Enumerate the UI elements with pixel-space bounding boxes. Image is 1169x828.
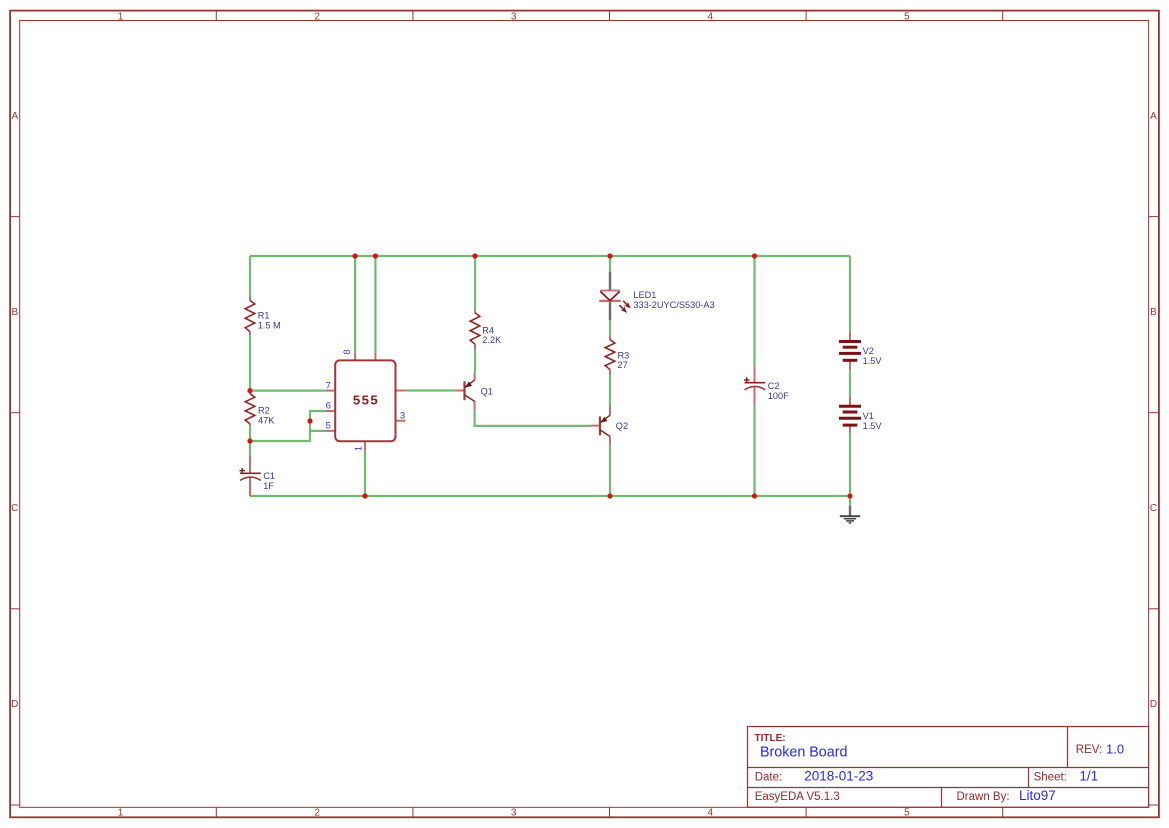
svg-text:C2: C2: [768, 381, 780, 391]
svg-text:2: 2: [314, 808, 320, 819]
svg-text:R2: R2: [258, 405, 270, 415]
svg-text:V2: V2: [863, 346, 874, 356]
svg-text:5: 5: [326, 421, 331, 432]
svg-text:B: B: [11, 307, 18, 318]
svg-text:47K: 47K: [258, 415, 275, 425]
svg-text:Q2: Q2: [616, 421, 628, 431]
svg-text:A: A: [1150, 111, 1157, 122]
svg-text:C: C: [1150, 503, 1157, 514]
svg-text:Drawn By:: Drawn By:: [957, 791, 1010, 803]
svg-text:1: 1: [118, 11, 124, 22]
svg-text:B: B: [1150, 307, 1157, 318]
svg-text:Lito97: Lito97: [1019, 788, 1056, 803]
svg-text:1: 1: [353, 446, 364, 451]
svg-text:4: 4: [708, 11, 714, 22]
svg-text:LED1: LED1: [633, 290, 656, 300]
svg-text:1.0: 1.0: [1106, 742, 1124, 757]
svg-text:EasyEDA V5.1.3: EasyEDA V5.1.3: [755, 791, 840, 803]
svg-text:C: C: [11, 503, 18, 514]
svg-text:REV:: REV:: [1076, 744, 1102, 756]
svg-text:27: 27: [618, 360, 628, 370]
svg-text:100F: 100F: [768, 391, 789, 401]
svg-text:5: 5: [904, 808, 910, 819]
svg-text:5: 5: [904, 11, 910, 22]
svg-text:2.2K: 2.2K: [482, 335, 502, 345]
svg-text:Date:: Date:: [755, 772, 782, 784]
svg-text:Q1: Q1: [481, 386, 493, 396]
svg-text:1.5V: 1.5V: [863, 421, 883, 431]
svg-text:A: A: [11, 111, 18, 122]
svg-text:R1: R1: [258, 311, 270, 321]
svg-text:2018-01-23: 2018-01-23: [804, 769, 873, 784]
svg-text:V1: V1: [863, 411, 874, 421]
svg-text:D: D: [1150, 699, 1157, 710]
svg-text:Broken Board: Broken Board: [760, 745, 847, 761]
svg-text:D: D: [11, 699, 18, 710]
svg-text:TITLE:: TITLE:: [755, 733, 786, 744]
svg-text:4: 4: [708, 808, 714, 819]
svg-text:3: 3: [511, 11, 517, 22]
svg-text:1.5 M: 1.5 M: [258, 321, 281, 331]
svg-text:C1: C1: [263, 471, 275, 481]
svg-text:333-2UYC/S530-A3: 333-2UYC/S530-A3: [633, 300, 714, 310]
svg-text:3: 3: [511, 808, 517, 819]
svg-text:1/1: 1/1: [1079, 769, 1098, 784]
svg-text:6: 6: [326, 401, 331, 412]
svg-text:2: 2: [314, 11, 320, 22]
svg-text:1F: 1F: [263, 481, 274, 491]
svg-text:Sheet:: Sheet:: [1034, 772, 1067, 784]
svg-text:1: 1: [118, 808, 124, 819]
svg-text:1.5V: 1.5V: [863, 356, 883, 366]
svg-text:3: 3: [400, 411, 405, 422]
svg-text:555: 555: [353, 393, 379, 408]
svg-text:7: 7: [326, 380, 331, 391]
svg-text:8: 8: [342, 349, 353, 354]
